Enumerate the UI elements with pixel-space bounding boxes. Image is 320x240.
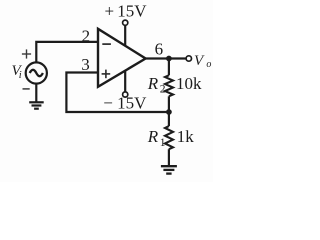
- wire output node down to R2: [168, 59, 170, 76]
- op-amp inverting input marker: [102, 43, 111, 45]
- terminal Vo open circle: [186, 56, 191, 61]
- wire +15V supply to op-amp top: [124, 26, 126, 46]
- svg-text:R: R: [147, 74, 159, 93]
- wire pin 3 feedback path: [66, 73, 167, 113]
- svg-text:o: o: [206, 59, 211, 70]
- ground under Vi: [29, 102, 44, 108]
- op-amp non-inverting input marker: [102, 70, 111, 79]
- node feedback junction: [166, 109, 172, 115]
- svg-text:3: 3: [81, 55, 90, 74]
- svg-text:R: R: [147, 127, 159, 146]
- wire output from apex to Vo terminal: [146, 57, 186, 59]
- resistor R1: [165, 126, 173, 149]
- svg-text:6: 6: [155, 39, 164, 58]
- ground under R1: [161, 166, 177, 173]
- svg-text:1: 1: [160, 137, 166, 149]
- wire from Vi top to pin 2: [36, 42, 98, 63]
- wire R2 bottom to feedback node: [168, 96, 170, 112]
- plus polarity mark at source: [22, 49, 31, 58]
- svg-text:1k: 1k: [177, 127, 195, 146]
- resistor R2: [165, 75, 173, 96]
- +15V supply terminal: [123, 20, 128, 25]
- svg-text:10k: 10k: [176, 74, 202, 93]
- wire feedback node down to R1: [168, 112, 170, 126]
- svg-text:+15V: +15V: [105, 2, 148, 21]
- wire from Vi bottom to ground: [35, 84, 37, 102]
- wire op-amp bottom to -15V terminal: [124, 71, 126, 92]
- -15V supply terminal: [123, 92, 128, 97]
- svg-text:i: i: [19, 70, 22, 81]
- op-amp U1: [98, 29, 146, 87]
- svg-text:2: 2: [160, 84, 166, 96]
- node output junction: [166, 56, 172, 62]
- voltage source Vi: [26, 62, 47, 83]
- svg-text:2: 2: [82, 27, 91, 46]
- wire R1 bottom to ground: [168, 149, 170, 165]
- minus polarity mark at source: [23, 88, 30, 90]
- svg-text:−15V: −15V: [103, 93, 147, 112]
